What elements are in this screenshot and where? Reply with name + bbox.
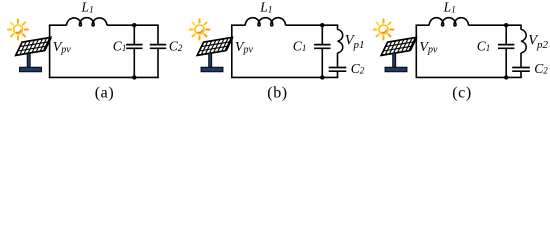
wire right branch lower stub (c) [520,72,522,78]
capacitor C2 (b) [329,68,347,72]
capacitor C1 (b) [314,45,330,49]
wire top left segment (c) [416,24,430,26]
svg-text:Vpv: Vpv [53,40,72,55]
solar panel (b) [197,37,232,55]
wire bottom (a) [49,76,159,78]
svg-text:Vpv: Vpv [419,40,438,55]
solar panel (c) [381,37,416,55]
svg-text:C2: C2 [534,61,548,76]
wire left vertical (c) [415,25,417,77]
svg-text:(c): (c) [452,85,472,102]
capacitor C2 (a) [150,45,166,49]
wire top right segment (b) [286,24,339,26]
sun (a) [8,20,28,40]
capacitor C2 (c) [512,68,530,72]
wire C1 branch lower (c) [505,49,507,78]
wire C2 branch lower (a) [157,49,159,78]
wire C1 branch upper (c) [505,25,507,44]
svg-text:(b): (b) [267,85,287,102]
wire C1 branch lower (a) [133,49,135,78]
wire top right segment (a) [107,24,159,26]
svg-text:L1: L1 [443,0,456,16]
inductor L1 (c) [429,18,468,26]
svg-text:C1: C1 [477,38,491,53]
inductor L1 (a) [67,18,107,26]
junction dot bottom (b) [320,75,324,79]
junction dot bottom (a) [132,75,136,79]
wire right branch mid stub (c) [520,53,522,67]
sun (b) [190,20,210,40]
wire bottom (b) [231,76,338,78]
panel stand (c) [385,53,407,72]
panel stand (a) [20,53,42,72]
svg-text:L1: L1 [259,0,272,16]
coil winding of Vp2 branch (c) [521,29,526,53]
wire top left segment (a) [49,24,67,26]
wire C1 branch lower (b) [321,49,323,78]
wire left vertical (a) [49,25,51,77]
wire right branch lower stub (b) [337,72,339,78]
wire right branch upper stub (c) [520,25,522,29]
junction dot top (b) [320,23,324,27]
junction dot top (c) [504,23,508,27]
svg-text:(a): (a) [95,85,115,102]
inductor L1 (b) [245,18,285,26]
wire top right segment (c) [468,24,521,26]
svg-text:Vp2: Vp2 [528,33,548,51]
svg-text:L1: L1 [81,0,94,16]
wire C1 branch upper (b) [321,25,323,44]
junction dot bottom (c) [504,75,508,79]
wire right branch upper stub (b) [337,25,339,29]
wire bottom (c) [416,76,522,78]
capacitor C1 (c) [498,45,514,49]
sun (c) [374,20,394,40]
junction dot top (a) [132,23,136,27]
wire C1 branch upper (a) [133,25,135,44]
wire right branch mid stub (b) [337,53,339,67]
svg-text:Vpv: Vpv [235,40,254,55]
solar panel (a) [16,37,51,55]
wire C2 branch upper (a) [157,25,159,44]
svg-text:C2: C2 [351,61,365,76]
svg-text:Vp1: Vp1 [345,33,365,51]
coil winding of Vp1 branch (b) [338,29,343,53]
svg-text:C1: C1 [113,38,127,53]
wire left vertical (b) [231,25,233,77]
panel stand (b) [201,53,223,72]
svg-text:C1: C1 [293,38,307,53]
capacitor C1 (a) [126,45,142,49]
wire top left segment (b) [231,24,245,26]
svg-text:C2: C2 [169,38,183,53]
